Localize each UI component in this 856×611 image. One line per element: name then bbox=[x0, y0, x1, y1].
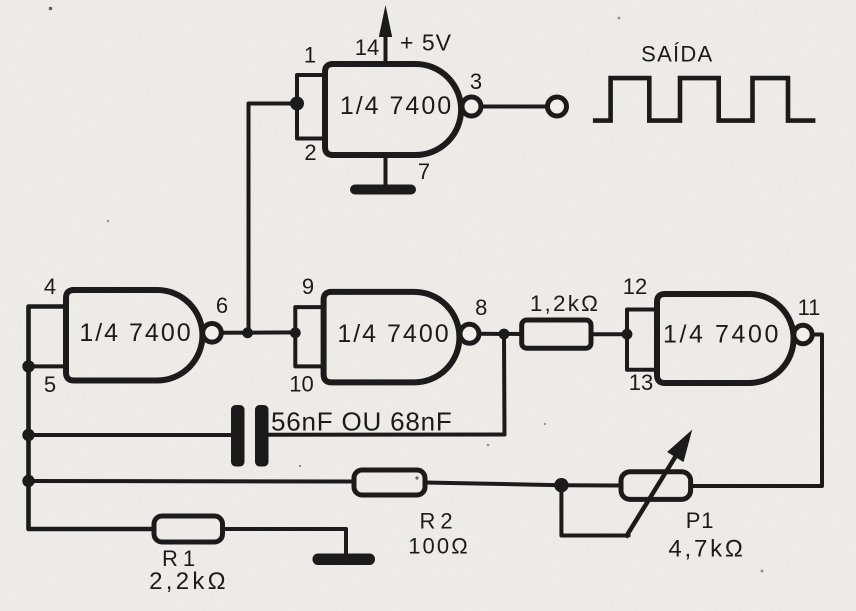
svg-text:6: 6 bbox=[216, 293, 228, 318]
svg-text:8: 8 bbox=[475, 295, 487, 320]
svg-text:5: 5 bbox=[44, 372, 56, 397]
svg-text:100Ω: 100Ω bbox=[408, 534, 470, 559]
svg-text:+ 5V: + 5V bbox=[400, 30, 452, 56]
svg-text:R2: R2 bbox=[419, 509, 457, 534]
svg-text:13: 13 bbox=[629, 370, 653, 395]
svg-text:4,7kΩ: 4,7kΩ bbox=[668, 536, 745, 563]
svg-text:1/4 7400: 1/4 7400 bbox=[663, 321, 781, 349]
svg-text:1,2kΩ: 1,2kΩ bbox=[530, 291, 600, 316]
svg-text:3: 3 bbox=[470, 69, 482, 94]
svg-text:12: 12 bbox=[623, 274, 647, 299]
svg-text:4: 4 bbox=[44, 274, 56, 299]
svg-text:1/4 7400: 1/4 7400 bbox=[79, 319, 192, 347]
svg-text:1/4 7400: 1/4 7400 bbox=[340, 92, 453, 120]
svg-text:SAÍDA: SAÍDA bbox=[641, 42, 713, 67]
svg-text:10: 10 bbox=[289, 372, 313, 397]
svg-text:56nF OU 68nF: 56nF OU 68nF bbox=[271, 407, 453, 437]
svg-text:2,2kΩ: 2,2kΩ bbox=[149, 568, 229, 595]
svg-text:9: 9 bbox=[302, 274, 314, 299]
svg-text:11: 11 bbox=[798, 295, 821, 320]
svg-text:1: 1 bbox=[304, 43, 316, 68]
svg-text:7: 7 bbox=[418, 159, 430, 184]
svg-text:14: 14 bbox=[355, 35, 379, 60]
svg-text:P1: P1 bbox=[686, 508, 715, 533]
svg-text:2: 2 bbox=[304, 140, 316, 165]
svg-text:1/4 7400: 1/4 7400 bbox=[337, 320, 450, 348]
